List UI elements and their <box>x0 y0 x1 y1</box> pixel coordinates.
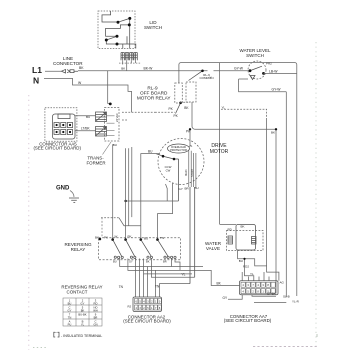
relay RL-9 coil box (dashed) <box>175 83 183 103</box>
node dot <box>124 200 126 202</box>
transformer secondary winding <box>96 127 107 137</box>
wire AA5 to transformer upper <box>75 115 96 117</box>
svg-text:1: 1 <box>151 307 153 310</box>
connector AA2 pins <box>135 299 162 311</box>
wire right drop <box>296 73 298 296</box>
table cell texts <box>68 298 98 326</box>
node dot <box>243 258 245 260</box>
svg-text:BU: BU <box>68 301 72 305</box>
wire misc h225 <box>119 218 141 226</box>
motor internal wires <box>163 156 179 201</box>
svg-text:1: 1 <box>155 300 157 303</box>
svg-text:WH: WH <box>93 308 98 312</box>
wire switch return U <box>239 79 287 92</box>
left faint dotted artifact column <box>28 95 30 350</box>
svg-text:SL-B: SL-B <box>283 295 290 299</box>
wire relay coil dashed bottom <box>180 101 190 103</box>
svg-text:PK: PK <box>174 114 179 118</box>
svg-text:5: 5 <box>139 300 141 303</box>
svg-text:BU: BU <box>144 237 148 241</box>
wire N lead <box>44 78 132 112</box>
svg-text:GY: GY <box>129 260 133 264</box>
wire to relay via h213 <box>158 183 173 239</box>
node dot <box>189 128 191 130</box>
relay RL-9 lower contact arm <box>176 103 181 114</box>
connector AA7 body <box>240 281 279 295</box>
svg-text:3: 3 <box>247 283 249 287</box>
trunk wire to misc h <box>129 147 132 226</box>
svg-text:YL: YL <box>81 322 85 326</box>
svg-text:YL: YL <box>182 273 186 277</box>
connector AA5 pins <box>54 123 73 135</box>
wire AA5 to transformer lower <box>75 130 96 132</box>
svg-text:BU: BU <box>195 186 199 190</box>
connector AA5 dashed enclosure <box>45 108 77 142</box>
transformer internal stubs <box>107 116 115 136</box>
transformer label leader line <box>103 142 112 155</box>
lid switch connector pins (4 plugs) <box>121 53 137 61</box>
svg-text:AG: AG <box>280 281 285 285</box>
relay RL-9 common arm <box>189 71 203 81</box>
wire L1 main run to water level switch <box>78 70 250 72</box>
water level switch diaphragm <box>250 76 255 80</box>
svg-text:6: 6 <box>136 300 138 303</box>
relay RL-9 contact box (dashed) <box>186 82 196 102</box>
wire transformer dashed lower right <box>122 119 128 121</box>
svg-text:RD: RD <box>228 227 233 231</box>
svg-text:0: 0 <box>159 300 161 303</box>
svg-text:7: 7 <box>252 283 254 287</box>
water level switch arm <box>250 66 262 71</box>
wire pin1 stub <box>122 60 124 64</box>
svg-text:(SEE CIRCUIT BOARD): (SEE CIRCUIT BOARD) <box>33 146 81 151</box>
svg-text:W: W <box>78 81 82 85</box>
svg-text:1: 1 <box>262 289 264 293</box>
svg-text:3: 3 <box>139 307 141 310</box>
reversing relay switch 4 <box>156 238 176 258</box>
svg-text:5: 5 <box>247 289 249 293</box>
drive motor body (dashed circle) <box>158 139 204 185</box>
lid switch inner wiring <box>102 11 136 49</box>
svg-text:FORMER: FORMER <box>86 161 105 166</box>
node dot relay contact <box>179 102 182 105</box>
svg-text:2: 2 <box>143 307 145 310</box>
water level switch terminals <box>249 69 252 72</box>
svg-text:7: 7 <box>155 307 157 310</box>
svg-text:BK: BK <box>184 106 189 110</box>
motor winding coils <box>189 151 196 187</box>
wire LB-W from switch <box>264 72 297 74</box>
wire transformer secondary dashed down-right <box>101 217 119 219</box>
svg-text:BU: BU <box>148 150 153 154</box>
svg-text:PK: PK <box>169 107 174 111</box>
reversing relay switch 1 <box>111 238 123 258</box>
wire stub to diaphragm <box>239 78 248 80</box>
svg-text:RD: RD <box>94 301 98 305</box>
wire L1 lead <box>45 70 62 72</box>
wires relay to connector AA2 <box>136 259 156 298</box>
svg-text:4: 4 <box>143 300 145 303</box>
svg-text:2: 2 <box>252 289 254 293</box>
svg-text:GND: GND <box>56 186 70 192</box>
svg-text:BU: BU <box>113 260 117 264</box>
svg-text:MOTOR: MOTOR <box>210 149 229 155</box>
svg-text:RELAY: RELAY <box>71 247 86 252</box>
water level switch body (dashed circle) <box>248 61 266 79</box>
svg-text:YL-R: YL-R <box>292 299 300 303</box>
svg-text:GY: GY <box>179 187 183 191</box>
valve coil left <box>228 236 233 244</box>
svg-text:Y: Y <box>210 76 212 80</box>
wire motor top feed <box>189 129 191 146</box>
svg-text:LB-W: LB-W <box>269 70 278 74</box>
overload protector oval <box>168 144 190 153</box>
reversing relay contact table <box>63 298 102 326</box>
insulated terminal legend <box>54 332 59 337</box>
wire into AA7 top left <box>242 272 269 281</box>
svg-text:L1: L1 <box>32 65 42 75</box>
svg-text:TN: TN <box>119 285 124 289</box>
svg-text:BR: BR <box>94 315 98 319</box>
faint dashed artifact bottom <box>253 346 318 348</box>
wire L1 branch down <box>108 71 111 105</box>
wire motor lead to AA2 <box>160 284 191 297</box>
connector AA5 body <box>53 114 76 139</box>
wire pin4 stub <box>135 60 137 63</box>
motor contact arm <box>156 154 163 157</box>
svg-text:CW: CW <box>166 169 171 173</box>
svg-text:MAIN: MAIN <box>184 169 188 176</box>
node dot relay left edge <box>99 238 102 241</box>
svg-text:BU: BU <box>239 259 243 263</box>
svg-text:BK: BK <box>121 67 125 71</box>
svg-text:4: 4 <box>242 283 244 287</box>
svg-text:BK-W: BK-W <box>144 66 154 70</box>
water valve body <box>236 224 256 250</box>
svg-text:GN: GN <box>93 322 97 326</box>
svg-text:BK: BK <box>271 131 275 135</box>
lid switch junction dots <box>105 17 132 46</box>
wire dashed branch right <box>221 109 267 118</box>
svg-text:YL: YL <box>222 106 226 110</box>
node dot at branch bottom <box>109 103 112 106</box>
wire bus 1 below relay <box>120 259 203 267</box>
connector AA5 pin dots <box>56 124 72 133</box>
lid switch enclosure (dashed box) <box>98 11 135 49</box>
wire BU from motor to left <box>141 154 160 240</box>
svg-text:8: 8 <box>159 307 161 310</box>
wire AA7 bottom left GY <box>228 295 242 300</box>
svg-text:BU-BK: BU-BK <box>78 312 86 316</box>
transformer T1 enclosure (dashed) <box>105 107 120 141</box>
wire transformer secondary dashed right <box>122 111 155 113</box>
node dot <box>275 128 277 130</box>
line connector plug symbol on L1 <box>62 69 79 73</box>
wire right trunk to AA7 col <box>275 129 277 293</box>
svg-text:VALVE: VALVE <box>206 246 220 251</box>
svg-text:GY: GY <box>68 308 72 312</box>
wire top rail <box>179 63 297 83</box>
svg-text:BK: BK <box>146 260 150 264</box>
transformer primary winding <box>96 112 107 122</box>
svg-text:4: 4 <box>242 289 244 293</box>
svg-text:SWITCH: SWITCH <box>144 25 162 30</box>
connector AA5 key tab <box>58 114 70 119</box>
svg-text:PROTECTOR: PROTECTOR <box>170 148 187 152</box>
wire bus 2 below relay <box>128 259 240 286</box>
wire right trunk down to water valve <box>219 63 221 225</box>
svg-text:YL: YL <box>250 272 254 276</box>
svg-text:- INSULATED TERMINAL: - INSULATED TERMINAL <box>61 334 102 338</box>
svg-text:4: 4 <box>136 307 138 310</box>
svg-text:PR2: PR2 <box>266 62 272 66</box>
svg-text:MOTOR RELAY: MOTOR RELAY <box>137 96 172 101</box>
svg-text:BK: BK <box>79 66 84 70</box>
lid switch contact arm 2 <box>106 36 117 40</box>
svg-text:BU: BU <box>113 143 117 147</box>
svg-text:GY-W: GY-W <box>272 88 282 92</box>
wire right trunk from U down <box>285 92 287 297</box>
motor winding leads <box>190 187 195 284</box>
reversing relay box (dashed) <box>99 238 181 260</box>
bottom-left dotted artifact <box>33 347 46 349</box>
svg-text:BK: BK <box>81 308 85 312</box>
svg-text:RJ: RJ <box>128 305 132 309</box>
svg-text:GY-W: GY-W <box>234 67 244 71</box>
svg-text:5: 5 <box>147 307 149 310</box>
svg-text:LT/BK: LT/BK <box>81 127 90 131</box>
svg-text:2: 2 <box>151 300 153 303</box>
svg-text:4: 4 <box>257 283 259 287</box>
pin numbers AA7 <box>242 283 269 293</box>
svg-text:START: START <box>190 168 194 177</box>
water valve dashed enclosure <box>227 231 264 251</box>
wire pin2 down to L1 wire <box>126 60 128 71</box>
svg-text:GY: GY <box>81 301 85 305</box>
wire valve bottom path <box>238 250 279 281</box>
connector AA2 pin digits <box>136 300 161 310</box>
svg-text:TN: TN <box>155 284 160 288</box>
wire bus 3 below relay <box>144 259 192 274</box>
wire pin3 stub <box>130 60 132 63</box>
wire AA7 bottom right links <box>252 295 297 303</box>
wire branch trunk down to valve staircase <box>266 118 268 266</box>
svg-text:SWITCH: SWITCH <box>246 53 264 58</box>
svg-text:PU: PU <box>68 322 72 326</box>
connector AA7 pins <box>241 282 275 293</box>
motor top terminal <box>189 145 192 148</box>
reversing relay switch 2 <box>124 238 136 258</box>
gnd wire <box>70 191 74 198</box>
valve coil right <box>252 237 257 245</box>
svg-text:TN: TN <box>68 315 72 319</box>
node dot relay common <box>201 70 204 73</box>
svg-text:3: 3 <box>262 283 264 287</box>
svg-text:(SEE CIRCUIT BOARD): (SEE CIRCUIT BOARD) <box>224 318 272 323</box>
reversing relay switch 3 <box>140 238 153 258</box>
svg-text:BK: BK <box>241 225 245 229</box>
svg-text:BU: BU <box>86 115 90 119</box>
wire valve top feed <box>220 223 236 225</box>
svg-text:BK: BK <box>217 282 222 286</box>
svg-text:BR: BR <box>163 260 167 264</box>
wire motor lower-left exit <box>126 184 179 201</box>
svg-text:24 VAC: 24 VAC <box>115 113 119 122</box>
svg-text:8: 8 <box>267 283 269 287</box>
lid switch contact arm 1 <box>118 18 130 22</box>
ground symbol <box>69 198 79 202</box>
svg-text:N: N <box>33 76 39 86</box>
motor node dots <box>162 155 165 158</box>
svg-text:CONTACT: CONTACT <box>67 290 88 295</box>
wire relay to motor vertical <box>192 102 276 129</box>
faint page artifact dotted vertical right <box>315 42 317 348</box>
middle trunk wires down to reversing relay <box>113 144 126 239</box>
connector AA2 body <box>133 297 162 312</box>
dashed stub left of relay <box>101 218 103 238</box>
svg-text:ST-BK: ST-BK <box>267 292 276 296</box>
svg-text:(SEE CIRCUIT BOARD): (SEE CIRCUIT BOARD) <box>123 319 171 324</box>
dashed line under lid pins <box>119 62 141 64</box>
wire relay coil dashed to transformer <box>155 111 175 113</box>
svg-text:8: 8 <box>257 289 259 293</box>
svg-text:RD2: RD2 <box>243 265 249 269</box>
wire bus 4 below relay <box>151 259 194 278</box>
wire relay right leads down <box>172 259 181 271</box>
svg-text:GY: GY <box>223 296 228 300</box>
wire valve second bottom path <box>245 259 254 281</box>
svg-text:3: 3 <box>147 300 149 303</box>
